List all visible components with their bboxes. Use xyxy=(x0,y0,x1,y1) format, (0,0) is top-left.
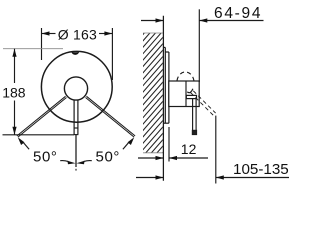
svg-text:188: 188 xyxy=(2,85,26,101)
svg-text:Ø 163: Ø 163 xyxy=(58,26,97,42)
svg-text:50°: 50° xyxy=(33,149,57,166)
svg-text:50°: 50° xyxy=(96,149,120,166)
svg-text:64-94: 64-94 xyxy=(214,5,262,22)
svg-text:105-135: 105-135 xyxy=(233,161,289,178)
svg-text:12: 12 xyxy=(181,141,197,157)
